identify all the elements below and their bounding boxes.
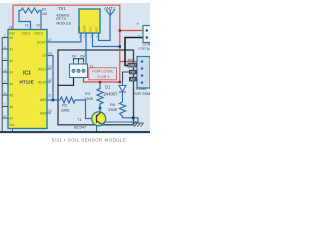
module box (soil sensor module outline) <box>58 50 134 125</box>
pin A0-A7 labels <box>9 36 13 121</box>
svg-text:ANT.1: ANT.1 <box>104 6 116 11</box>
wire Vcc branch to sensor connector (red) <box>120 61 137 63</box>
svg-text:BC547: BC547 <box>74 124 87 129</box>
svg-text:VCC: VCC <box>89 26 93 32</box>
wire TX Vcc pin to +6V rail <box>93 33 120 47</box>
sensor connector CON2 <box>137 57 150 89</box>
svg-text:ANT: ANT <box>95 26 99 32</box>
label D0 chip <box>129 70 137 75</box>
wire Vss stub <box>12 129 14 133</box>
svg-text:A3: A3 <box>9 71 13 75</box>
antenna ANT.1 <box>106 9 115 15</box>
svg-text:6V: 6V <box>80 54 85 58</box>
svg-text:A4: A4 <box>9 82 13 86</box>
svg-text:AD8: AD8 <box>40 112 46 116</box>
svg-text:TX1: TX1 <box>58 6 66 11</box>
label GND chip <box>128 63 138 68</box>
svg-text:AD11: AD11 <box>38 68 46 72</box>
wire ground rail bottom <box>0 131 150 133</box>
label 433MHZ RF TX MODULE <box>56 13 72 25</box>
svg-text:CON2: CON2 <box>136 87 147 91</box>
pin right side labels <box>37 41 46 116</box>
svg-text:D0: D0 <box>131 71 135 75</box>
label FOR LOGIC 0 OR 1 (red box) <box>89 68 117 80</box>
resistor R4 330E (vertical) <box>120 102 126 116</box>
svg-text:GND: GND <box>128 64 136 68</box>
svg-text:330E: 330E <box>108 107 118 112</box>
svg-text:A1: A1 <box>9 48 13 52</box>
svg-text:14: 14 <box>48 52 52 56</box>
svg-text:17: 17 <box>48 38 52 42</box>
svg-text:T1: T1 <box>77 117 82 122</box>
node R3 top junction <box>99 81 101 83</box>
svg-text:5/31 • SOIL SENSOR MODULE: 5/31 • SOIL SENSOR MODULE <box>52 137 127 142</box>
svg-text:13: 13 <box>48 65 52 69</box>
svg-text:16: 16 <box>25 23 29 27</box>
jumper bracket 6V <box>79 59 84 62</box>
wire TX pin2 down to J1 <box>85 33 87 64</box>
svg-text:A2: A2 <box>9 59 13 63</box>
diode D1 1N4007 <box>119 82 126 102</box>
ground earth symbol <box>133 123 144 127</box>
svg-text:GND: GND <box>77 26 81 32</box>
svg-text:TE: TE <box>42 54 46 58</box>
schematic background <box>0 0 150 150</box>
wire DOUT to TX data <box>47 33 81 42</box>
svg-text:HT12E: HT12E <box>20 80 34 85</box>
svg-text:0 OR 1: 0 OR 1 <box>97 74 109 79</box>
svg-text:10: 10 <box>48 109 52 113</box>
J1 pin stubs up <box>74 61 84 64</box>
wire D0 line from sensor connector <box>123 72 138 82</box>
svg-text:R1: R1 <box>42 7 47 11</box>
wire R4 to earth <box>123 116 139 123</box>
wire +6V top rail (red) <box>13 5 120 82</box>
svg-text:12: 12 <box>48 78 52 82</box>
svg-text:+: + <box>137 22 140 27</box>
svg-text:DOUT: DOUT <box>37 41 46 45</box>
svg-text:RF TX: RF TX <box>56 17 67 21</box>
label R3 <box>84 91 94 101</box>
svg-text:FOR BA: FOR BA <box>139 47 151 51</box>
wire R2 to base <box>75 100 93 119</box>
node battery plus junction <box>119 29 121 31</box>
svg-text:A6: A6 <box>9 105 13 109</box>
TX module pin labels <box>77 25 99 32</box>
pin numbers left 1-8 <box>4 34 6 119</box>
node TE/AD junction <box>52 99 55 102</box>
svg-text:A7: A7 <box>9 117 13 121</box>
label A0 chip <box>129 77 137 82</box>
battery connector pins <box>146 29 148 31</box>
svg-text:A0: A0 <box>131 78 135 82</box>
svg-text:MODULE: MODULE <box>56 22 72 26</box>
svg-text:330E: 330E <box>61 108 71 113</box>
label R2 <box>61 103 71 113</box>
label CON1 FOR BATTERY <box>139 43 153 51</box>
node earth junction <box>132 117 135 120</box>
wire battery plus branch (red) <box>120 30 143 32</box>
connector J1 <box>70 64 88 78</box>
wire AD pin to R2 <box>47 99 60 101</box>
svg-text:18: 18 <box>9 26 13 30</box>
svg-text:1M: 1M <box>42 12 47 16</box>
svg-text:–: – <box>138 33 141 38</box>
svg-text:Vdd: Vdd <box>9 32 15 36</box>
TX module pin numbers <box>79 35 99 39</box>
svg-text:FOR LOGIC: FOR LOGIC <box>92 68 114 73</box>
svg-text:A5: A5 <box>9 94 13 98</box>
TX module pin stubs <box>81 33 99 37</box>
label R1 value <box>42 7 47 16</box>
pin numbers top <box>9 23 40 29</box>
svg-text:11: 11 <box>48 94 52 98</box>
svg-text:15: 15 <box>36 23 40 27</box>
node TX Vcc junction <box>119 45 121 47</box>
transistor T1 BC547 <box>92 112 106 126</box>
svg-text:DATA: DATA <box>83 25 87 32</box>
label R4 <box>108 102 118 112</box>
label D1 <box>103 85 118 97</box>
label T1 BC547 <box>74 117 87 130</box>
svg-text:Vcc: Vcc <box>128 58 134 62</box>
svg-text:AD9: AD9 <box>40 98 46 102</box>
jumper bracket 0V <box>74 59 79 62</box>
resistor R1 1M (between OSC1 and OSC2) <box>19 8 41 30</box>
svg-text:FOR SSM: FOR SSM <box>133 92 150 96</box>
wire battery minus (black) <box>125 38 143 66</box>
pin stubs right unconnected <box>47 69 51 113</box>
wire emitter to rail <box>96 126 98 132</box>
wire logic-1 feed from J1 (red) <box>84 78 120 83</box>
wire TE loop <box>47 56 53 101</box>
svg-text:CON1: CON1 <box>143 43 151 47</box>
wire TX ant pin to antenna <box>99 15 111 41</box>
svg-text:1N4007: 1N4007 <box>103 91 118 96</box>
svg-text:330E: 330E <box>84 96 94 101</box>
wire emitter to earth <box>102 122 139 124</box>
IC1 HT12E body <box>8 30 47 129</box>
svg-text:A0: A0 <box>9 36 13 40</box>
J1 pins <box>72 69 85 72</box>
svg-text:0V: 0V <box>72 54 77 58</box>
svg-text:OSC1: OSC1 <box>22 32 31 36</box>
svg-text:D1: D1 <box>105 85 111 90</box>
TX1 module body <box>79 9 100 33</box>
wire J1 left pin to ground side (black) <box>58 78 74 86</box>
pin numbers right <box>48 38 52 113</box>
svg-text:Vss: Vss <box>9 123 15 127</box>
node R3 bottom junction <box>99 107 102 110</box>
svg-text:AD10: AD10 <box>38 81 46 85</box>
label CON2 FOR SSM <box>133 87 150 96</box>
node D1 top junction <box>119 81 121 83</box>
svg-text:OSC2: OSC2 <box>35 32 44 36</box>
wire R3 to collector <box>99 108 101 112</box>
wire address bus left <box>2 38 8 133</box>
sensor connector pins <box>141 60 144 84</box>
svg-text:IC1: IC1 <box>23 71 31 77</box>
battery connector CON1 <box>143 26 152 43</box>
resistor R2 330E (horizontal) <box>60 97 75 103</box>
resistor R3 330E (vertical) <box>97 82 103 108</box>
